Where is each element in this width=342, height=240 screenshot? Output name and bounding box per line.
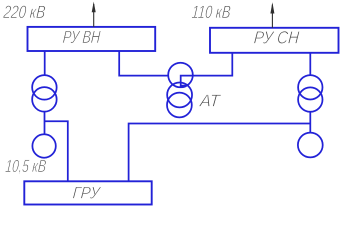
svg-text:РУ СН: РУ СН <box>253 28 300 48</box>
svg-text:110 кВ: 110 кВ <box>191 2 232 22</box>
svg-text:ГРУ: ГРУ <box>72 184 102 203</box>
svg-text:РУ ВН: РУ ВН <box>62 27 101 47</box>
svg-text:220 кВ: 220 кВ <box>2 2 46 22</box>
svg-text:АТ: АТ <box>198 91 222 111</box>
svg-text:10,5 кВ: 10,5 кВ <box>5 156 48 176</box>
